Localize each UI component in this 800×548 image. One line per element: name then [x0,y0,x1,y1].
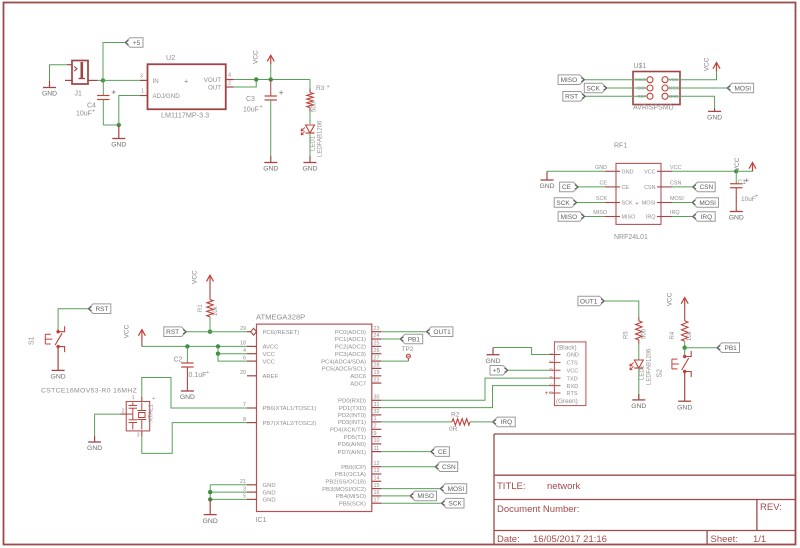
svg-text:32: 32 [374,409,380,415]
net flag RST to AVRISP [563,92,586,102]
IC1 pin 26 PC3(ADC3) [372,353,382,355]
wire GND to FTDI pin 1 [493,348,549,355]
IC1 pin 13 PB1(OC1A) [372,473,382,475]
svg-text:PC5(ADC5/SCL): PC5(ADC5/SCL) [322,367,366,373]
title block row line Document Number [494,499,796,501]
wire +5 to FTDI pin 3 [508,369,549,371]
wire U$1 MOSI [668,87,727,89]
svg-text:22: 22 [374,377,380,383]
svg-text:5: 5 [243,494,246,500]
svg-text:3: 3 [140,74,143,80]
net flag MISO at IC1 [410,491,437,501]
svg-text:20: 20 [240,370,246,376]
svg-text:8: 8 [243,417,246,423]
svg-text:VCC: VCC [644,170,655,176]
FTDI pin 4 TXD [549,377,560,379]
wire VCC rail to R3 [309,80,311,89]
net flag RST from pushbutton [88,304,111,314]
svg-text:MISO: MISO [561,214,578,221]
microcontroller IC1 ATMEGA328P box [257,324,372,511]
svg-text:RST: RST [95,306,108,313]
IC1 pin 7 PB6(XTAL1/TOSC1) [247,407,257,409]
svg-text:VCC: VCC [666,292,673,306]
svg-text:25: 25 [374,341,380,347]
svg-text:+: + [92,109,95,115]
ground GND under S1 [52,369,65,371]
svg-text:PB1(OC1A): PB1(OC1A) [335,472,366,478]
wire R4 to PB1 node [684,341,686,347]
net flag CSN at IC1 [435,462,458,472]
svg-text:GND: GND [263,483,276,489]
supply VCC at R1 [207,275,214,281]
net flag OUT1 at IC1 [426,327,453,337]
svg-text:VCC: VCC [734,157,741,171]
svg-text:3: 3 [243,486,246,492]
svg-text:XTAL1: XTAL1 [149,403,155,422]
wire pin 1 to R2 [381,421,452,423]
svg-text:MISO: MISO [622,215,636,221]
IC1 pin 4 VCC [247,353,257,355]
svg-text:ADJ/GND: ADJ/GND [153,93,181,100]
svg-text:VOUT: VOUT [204,77,221,84]
svg-text:IC1: IC1 [256,517,267,524]
IC1 pin 17 PB5(SCK) [372,502,382,504]
net flag PB1 at S2 [717,343,740,353]
wire pin 12 to CSN [381,466,435,468]
svg-text:Date:: Date: [497,534,520,545]
svg-text:J1: J1 [75,91,83,98]
wire crystal pin 2 to GND [120,413,126,415]
wire pin 16 to MISO [381,495,410,497]
net flag SCK to RF1 [554,198,577,208]
wire RF1 VCC to supply [672,170,736,172]
ground GND under C4 [118,125,120,138]
ground GND under C2 [181,390,194,392]
wire R1 to RST net [209,317,211,332]
svg-text:GND: GND [180,394,195,401]
svg-text:+: + [152,396,155,402]
svg-text:7: 7 [243,402,246,408]
LED LED1 LEDFAB1206 [306,125,315,133]
svg-text:13: 13 [374,468,380,474]
wire pin 23 to OUT1 [381,331,426,333]
wire MISO to U$1 [585,79,647,81]
svg-text:(Green): (Green) [556,398,578,405]
svg-text:PB1: PB1 [725,345,738,352]
FTDI pin 2 CTS [549,361,560,363]
wire +5 node to U2 IN [103,79,140,81]
svg-text:IRQ: IRQ [501,419,513,426]
IC1 pin 20 AREF [247,375,257,377]
svg-text:LM1117MP-3.3: LM1117MP-3.3 [161,111,209,120]
IC1 pin 10 PD6(AIN0) [372,443,382,445]
net flag CE to RF1 [560,182,579,192]
IC1 pin 5 GND [247,498,257,500]
resistor R4 10k [684,306,686,321]
wire crystal pin 3 to IC1 pin 8 [141,431,143,436]
svg-text:+5: +5 [493,368,501,375]
wire RST to U$1 [586,95,648,97]
svg-text:AVCC: AVCC [263,345,280,351]
junction at pin 4 row [216,352,220,356]
svg-text:1: 1 [132,395,135,401]
svg-text:CSN: CSN [442,464,456,471]
net flag MOSI from AVRISP [727,83,754,93]
junction VOUT/OUT [254,77,258,81]
svg-text:10uF: 10uF [76,111,92,118]
IC1 pin 9 PD5(T1) [372,436,382,438]
svg-text:10uF: 10uF [741,196,756,203]
wire RST to IC1 pin 29 [187,331,248,333]
ground GND under LED2 [638,394,640,400]
svg-text:+: + [636,201,639,207]
FTDI pin 1 GND [549,354,560,356]
svg-text:31: 31 [374,402,380,408]
svg-text:0.1uF: 0.1uF [189,372,207,379]
wire GND bus to IC1 pins 21 3 5 [210,484,247,486]
RF1 left pin GND [605,170,620,172]
svg-text:SCK: SCK [596,196,607,202]
RF1 right pin IRQ [657,216,672,218]
wire RF1 GND [547,170,605,172]
svg-text:GND: GND [263,498,276,504]
IC1 pin 16 PB4(MISO) [372,495,382,497]
wire pin 31 TXD to FTDI RXD [381,386,549,408]
svg-text:11: 11 [374,446,380,452]
svg-text:10k: 10k [687,330,693,341]
svg-text:CSTCE16MOV53-R0 16MHZ: CSTCE16MOV53-R0 16MHZ [41,388,137,395]
wire up to +5 flag [103,43,125,81]
svg-text:SCK: SCK [448,501,462,508]
IC1 pin 2 PD4(XCK/T0) [372,428,382,430]
net flag RST to IC1 [164,327,187,337]
svg-text:PD1(TXD): PD1(TXD) [339,406,366,412]
svg-text:IRQ: IRQ [670,210,680,216]
svg-text:R2: R2 [451,411,460,418]
RF1 left pin SCK [605,202,620,204]
svg-text:PC2(ADC2): PC2(ADC2) [335,345,366,351]
net flag +5 to FTDI VCC [490,365,508,375]
svg-text:AREF: AREF [263,374,279,380]
IC1 pin 1 PD3(INT1) [372,421,382,423]
IC1 pin 23 PC0(ADC0) [372,331,382,333]
IC1 pin 14 PB2(SS/OC1B) [372,480,382,482]
svg-text:6: 6 [243,355,246,361]
svg-text:PB2(SS/OC1B): PB2(SS/OC1B) [325,480,366,486]
svg-text:(Black): (Black) [557,344,577,351]
RF1 right pin MOSI [657,202,672,204]
net flag CE at IC1 [431,447,450,457]
svg-text:GND: GND [567,353,579,359]
RF1 left pin CE [605,186,620,188]
svg-text:29: 29 [240,326,246,332]
wire VCC branch to pin 6 [218,354,247,361]
net flag MISO to AVRISP [558,75,585,85]
svg-text:GND: GND [595,165,607,171]
svg-text:16: 16 [374,490,380,496]
svg-text:MOSI: MOSI [670,196,684,202]
svg-text:R3: R3 [316,85,325,92]
IC1 pin 24 PC1(ADC1) [372,338,382,340]
svg-text:AVRISPSMD: AVRISPSMD [633,105,674,112]
svg-text:GND: GND [42,91,57,98]
svg-text:R4: R4 [670,331,676,339]
IC1 pin 8 PB7(XTAL2/TOSC2) [247,422,257,424]
svg-text:VCC: VCC [263,352,276,358]
svg-text:16/05/2017 21:16: 16/05/2017 21:16 [533,534,607,545]
wire R5 to LED2 [638,344,640,360]
svg-text:R5: R5 [624,331,630,339]
IC1 pin 30 PD0(RXD) [372,399,382,401]
ground GND under IC1 [209,499,211,514]
svg-text:R1: R1 [198,304,204,312]
ground GND at RF1 [546,171,548,179]
svg-text:GND: GND [263,166,278,173]
svg-text:MOSI: MOSI [448,486,465,493]
net flag PB1 at IC1 [400,334,423,344]
svg-text:1: 1 [374,416,377,422]
IC1 pin 28 PC5(ADC5/SCL) [372,367,382,369]
svg-text:CTS: CTS [567,361,578,367]
wire SCK to U$1 [607,87,647,89]
svg-text:PB3(MOSI/OC2): PB3(MOSI/OC2) [322,487,366,493]
ground GND at J1 [49,81,51,88]
svg-text:GND: GND [51,374,66,381]
svg-text:VCC: VCC [567,368,579,374]
svg-text:network: network [547,481,581,492]
net flag MISO to RF1 [558,212,585,222]
resistor R2 0R [452,419,470,425]
svg-text:6: 6 [549,390,554,393]
svg-text:MISO: MISO [561,77,578,84]
junction R4/S2/PB1 [683,346,687,350]
svg-text:TITLE:: TITLE: [497,481,526,492]
svg-text:CSN: CSN [644,185,655,191]
capacitor C1 10uF [735,171,737,183]
U2 pin 1 ADJ [140,95,148,97]
svg-text:RTS: RTS [567,391,578,397]
svg-text:GND: GND [707,115,722,122]
RF1 right pin VCC [657,170,672,172]
wire OUT1 to R5 [605,301,639,317]
svg-text:10: 10 [374,438,380,444]
svg-text:Document Number:: Document Number: [497,504,579,515]
svg-text:1: 1 [549,352,554,355]
wire SCK to RF1 [577,202,605,204]
svg-text:OUT1: OUT1 [433,329,451,336]
svg-text:15: 15 [374,483,380,489]
svg-text:PD6(AIN0): PD6(AIN0) [338,442,367,448]
title block row line Date [494,530,796,532]
testpoint TP2 [406,354,410,358]
title block row line TITLE [494,474,796,476]
svg-text:GND: GND [729,215,744,222]
svg-text:1: 1 [141,89,144,95]
resistor R5 500 [638,317,640,321]
svg-text:GND: GND [631,403,646,410]
net flag IRQ from RF1 [672,216,693,218]
junction node +5 at J1 [101,78,105,82]
svg-text:10uF: 10uF [243,107,259,114]
capacitor C3 10uF [270,80,272,97]
junction GND bus pin 5 [208,497,212,501]
svg-text:PD0(RXD): PD0(RXD) [338,399,366,405]
IC1 pin 15 PB3(MOSI/OC2) [372,488,382,490]
svg-text:CSN: CSN [699,184,713,191]
junction VCC node [269,77,273,81]
svg-text:PB6(XTAL1/TOSC1): PB6(XTAL1/TOSC1) [263,406,317,412]
resistor R3 500 [309,89,311,93]
svg-text:C1: C1 [738,179,747,186]
net flag MOSI from RF1 [672,202,692,204]
net flag SCK at IC1 [441,498,464,508]
svg-text:CE: CE [622,185,630,191]
svg-text:GND: GND [203,518,218,525]
connector FTDI serial header [554,342,586,406]
junction VCC/C1 node [734,169,738,173]
wire R2 to IRQ [470,421,493,423]
svg-text:S1: S1 [29,336,36,345]
svg-text:SCK: SCK [556,200,570,207]
svg-text:LED2: LED2 [640,364,646,380]
svg-text:PB1: PB1 [408,336,421,343]
junction VCC branch to pins 4 6 [216,344,220,348]
supply VCC at R4 [681,298,688,304]
junction GND bus pin 3 [208,490,212,494]
svg-text:14: 14 [374,476,380,482]
ground GND at AVRISP [714,109,716,112]
wire OUT joins VOUT [234,80,257,88]
svg-text:18: 18 [240,341,246,347]
svg-text:MOSI: MOSI [642,201,656,207]
svg-text:MISO: MISO [417,493,434,500]
wire pin 24 to PB1 [381,338,400,340]
wire J1 sleeve to GND [50,65,68,81]
svg-text:9: 9 [374,431,377,437]
svg-text:IN: IN [153,78,159,85]
svg-text:2: 2 [549,360,554,363]
junction VCC/C2 [185,344,189,348]
svg-text:LEDFAB1206: LEDFAB1206 [647,348,653,385]
ground GND under S2 [678,400,691,402]
net flag OUT1 to LED2 [578,296,605,306]
supply flag +5 [125,38,143,48]
junction R1/RST [208,330,212,334]
svg-text:PB0(ICP): PB0(ICP) [341,465,366,471]
svg-text:VCC: VCC [670,165,681,171]
svg-text:+: + [755,194,758,200]
svg-text:PB4(MISO): PB4(MISO) [336,494,366,500]
supply VCC at regulator output [270,64,272,80]
svg-text:PC1(ADC1): PC1(ADC1) [335,337,366,343]
IC1 pin 11 PD7(AIN1) [372,451,382,453]
svg-text:RST: RST [565,94,578,101]
wire C4 to GND node [103,124,119,126]
svg-text:LEDFAB1206: LEDFAB1206 [318,120,324,157]
svg-text:17: 17 [374,497,380,503]
svg-text:GND: GND [87,445,102,452]
resistor R1 10k pull-up [209,284,211,300]
svg-text:CE: CE [600,180,608,186]
svg-text:PD4(XCK/T0): PD4(XCK/T0) [330,428,366,434]
svg-text:23: 23 [374,326,380,332]
svg-text:2: 2 [228,81,231,87]
svg-text:C2: C2 [174,357,183,364]
svg-text:3: 3 [549,368,554,371]
LED LED2 LEDFAB1206 [634,360,643,368]
svg-text:VCC: VCC [124,324,131,338]
svg-text:MOSI: MOSI [734,85,751,92]
title block Sheet divider [706,531,708,545]
svg-text:RST: RST [166,329,179,336]
ground GND under LED1 [309,156,311,162]
svg-text:MOSI: MOSI [699,200,716,207]
svg-text:NRF24L01: NRF24L01 [614,234,648,241]
svg-text:GND: GND [111,142,126,149]
svg-text:RXD: RXD [567,384,579,390]
svg-text:SCK: SCK [586,85,600,92]
svg-text:CE: CE [438,449,448,456]
connector J1 power jack [72,61,88,85]
svg-text:5: 5 [549,383,554,386]
svg-text:4: 4 [549,375,554,378]
svg-text:VCC: VCC [192,270,199,284]
RF1 left pin MISO [605,216,620,218]
svg-text:4: 4 [228,73,231,79]
svg-text:SCK: SCK [622,201,633,207]
RF1 right pin CSN [657,186,672,188]
svg-text:PC6(/RESET): PC6(/RESET) [263,330,300,336]
svg-text:CSN: CSN [670,180,681,186]
net flag MOSI at IC1 [440,484,467,494]
wire U$1 VCC [668,72,717,80]
wire J1 output to node +5 [98,79,104,81]
ground GND under C1 [730,211,743,213]
svg-text:PC0(ADC0): PC0(ADC0) [335,330,366,336]
wire CE to RF1 [578,186,605,188]
svg-text:3: 3 [137,433,140,439]
wire pin 11 to CE [381,451,430,453]
svg-text:PB7(XTAL2/TOSC2): PB7(XTAL2/TOSC2) [263,421,317,427]
svg-text:+: + [184,77,189,86]
svg-text:GND: GND [539,183,554,190]
svg-text:PC3(ADC3): PC3(ADC3) [335,352,366,358]
IC1 pin 25 PC2(ADC2) [372,345,382,347]
svg-text:+5: +5 [133,40,141,47]
svg-text:500: 500 [642,328,648,339]
svg-text:VCC: VCC [263,359,276,365]
svg-text:4: 4 [243,348,246,354]
svg-text:GND: GND [485,358,500,365]
IC1 pin 22 ADC7 [372,382,382,384]
voltage regulator U2 LM1117MP-3.3 [148,64,226,109]
svg-text:MISO: MISO [593,210,607,216]
svg-text:10k: 10k [213,305,219,316]
svg-text:+: + [545,391,549,397]
IC1 pin 31 PD1(TXD) [372,407,382,409]
svg-text:19: 19 [374,370,380,376]
connector U$1 AVRISPSMD [633,72,680,105]
FTDI pin 3 VCC [549,369,560,371]
svg-text:ADC6: ADC6 [350,374,366,380]
svg-text:ADC7: ADC7 [350,381,366,387]
wire pin 30 RXD to FTDI TXD [381,378,549,400]
net flag SCK to AVRISP [584,83,607,93]
IC1 pin 21 GND [247,484,257,486]
IC1 pin 32 PD2(INT0) [372,414,382,416]
svg-text:PD5(T1): PD5(T1) [344,435,366,441]
capacitor C4 10uF [102,80,104,95]
